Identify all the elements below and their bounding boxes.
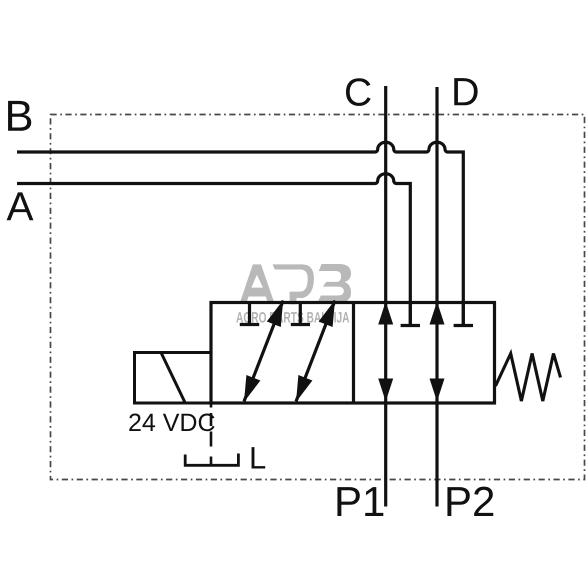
drain port bracket xyxy=(184,454,240,466)
arrowhead down-left on diagonal 1 xyxy=(244,375,260,402)
arrowhead up-right on diagonal 1 xyxy=(267,300,283,327)
blocked port T right cell 2 xyxy=(454,303,473,326)
solenoid box xyxy=(135,353,212,404)
wire B horizontal with hops over C and D xyxy=(17,142,463,325)
arrowhead up on C in valve xyxy=(378,302,393,325)
arrowhead up-right on diagonal 2 xyxy=(319,300,335,327)
arrowhead down-left on diagonal 2 xyxy=(296,375,312,402)
port label B xyxy=(8,101,31,131)
wire D vertical to P2 xyxy=(435,87,438,507)
wire A horizontal with hop over C xyxy=(17,174,410,326)
blocked port T right cell 1 xyxy=(401,303,420,326)
watermark logo AP3 xyxy=(240,264,351,304)
dash-dot enclosure border xyxy=(51,115,585,480)
port label P2 xyxy=(447,487,493,516)
label L xyxy=(252,447,266,468)
port label A xyxy=(7,192,34,220)
arrowhead down on D in valve xyxy=(430,379,445,402)
arrowhead up on D in valve xyxy=(430,302,445,325)
spring xyxy=(496,354,561,402)
port label P1 xyxy=(337,487,383,516)
arrowhead down on C in valve xyxy=(378,379,393,402)
valve center divider xyxy=(352,303,355,404)
port label C xyxy=(346,78,371,106)
watermark text AGRO PARTS BALTIJA xyxy=(236,312,349,323)
diagonal flow arrow shaft 2 (left cell) xyxy=(296,301,335,402)
diagonal flow arrow shaft 1 (left cell) xyxy=(244,301,283,402)
solenoid diagonal xyxy=(161,353,185,403)
valve body outline xyxy=(211,303,495,404)
port label D xyxy=(454,78,477,105)
blocked port T left cell 2 xyxy=(291,303,310,325)
blocked port T left cell 1 xyxy=(240,303,259,325)
wire C vertical to P1 xyxy=(384,86,387,507)
label 24 VDC xyxy=(129,414,214,432)
drain line dashed xyxy=(210,403,213,465)
